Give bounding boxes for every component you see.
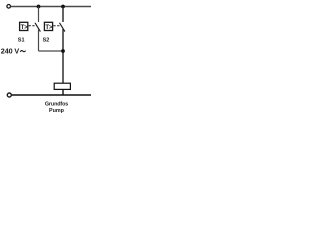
wire bottom return rail (12, 94, 92, 96)
junction dot at S2 branch (61, 5, 65, 9)
dashed actuator link S1 (29, 25, 37, 27)
svg-text:Grundfos: Grundfos (45, 101, 68, 107)
dashed actuator link S2 (53, 25, 61, 27)
wire S2 branch upper (62, 7, 64, 23)
wire pump to bottom rail (62, 89, 64, 95)
svg-text:S1: S1 (18, 38, 25, 44)
wire S1 branch lower (38, 29, 40, 51)
svg-text:T>: T> (45, 25, 53, 31)
AC tilde symbol (20, 51, 25, 52)
thermostat sensor box S2 (44, 22, 52, 30)
wire S2 branch lower to pump (62, 29, 64, 84)
junction dot at S1 branch (37, 5, 41, 9)
svg-text:240 V: 240 V (1, 47, 20, 56)
junction dot at link (61, 49, 65, 53)
svg-text:Pump: Pump (49, 108, 65, 114)
node N bottom supply terminal (7, 93, 11, 97)
switch S1 blade (35, 23, 40, 32)
switch S2 blade (60, 23, 65, 32)
svg-text:T>: T> (21, 25, 29, 31)
wire S1 branch upper (38, 7, 40, 23)
svg-text:S2: S2 (43, 38, 50, 44)
wire S1-to-S2 link horizontal (39, 50, 64, 52)
pump box M1 (54, 83, 70, 89)
node L1 top supply terminal (7, 5, 11, 9)
thermostat sensor box S1 (20, 22, 28, 30)
wire top supply rail (11, 6, 91, 8)
